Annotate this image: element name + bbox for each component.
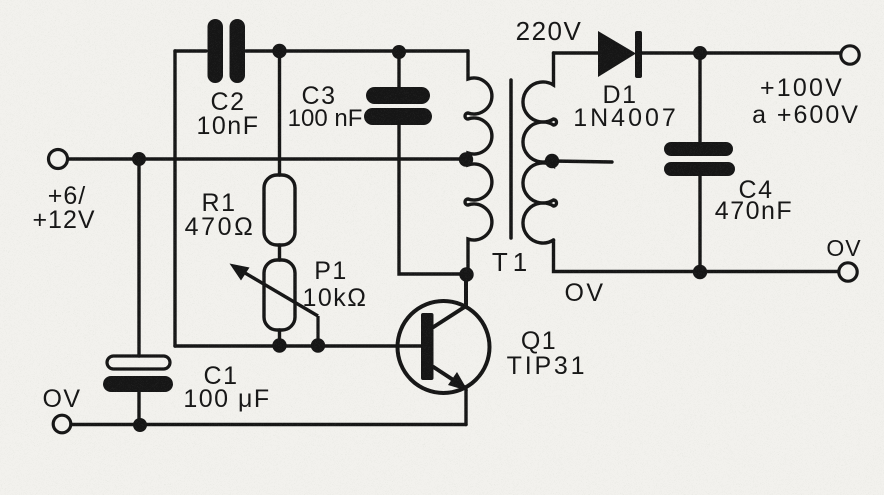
wire base rail xyxy=(175,344,421,347)
label C3 xyxy=(288,82,363,132)
node top wire / R1 xyxy=(272,44,286,58)
node primary center tap xyxy=(459,152,473,166)
transformer T1 secondary winding xyxy=(523,53,557,243)
node top wire / C3 xyxy=(392,45,406,59)
node P1 wiper xyxy=(311,338,325,352)
node diode cathode / C4 xyxy=(693,46,707,60)
label +100V a +600V xyxy=(752,74,860,129)
label C2 xyxy=(197,88,260,140)
node bottom rail / C1 xyxy=(133,418,147,432)
terminal +6/+12V xyxy=(49,150,68,169)
wire R1 top lead xyxy=(278,51,281,175)
label Q1 xyxy=(507,327,588,380)
transformer T1 core xyxy=(509,80,513,238)
wire secondary tap stub xyxy=(552,161,612,162)
capacitor C4 xyxy=(664,142,735,176)
wire main +6/12V rail xyxy=(58,157,466,160)
label +6/+12V xyxy=(32,182,95,234)
wire collector xyxy=(434,274,467,327)
wire emitter xyxy=(434,367,465,387)
transformer T1 primary winding xyxy=(465,51,492,275)
label R1 xyxy=(185,189,256,241)
node secondary center tap xyxy=(545,154,559,168)
node primary bottom / collector xyxy=(459,267,473,281)
capacitor C2 xyxy=(208,19,246,83)
wire feedback vertical xyxy=(173,51,176,346)
capacitor C1 xyxy=(103,356,173,392)
wire secondary bottom rail xyxy=(554,240,849,272)
label D1 xyxy=(573,81,679,132)
resistor R1 xyxy=(264,175,295,245)
node main rail / C1 xyxy=(132,152,146,166)
capacitor C3 xyxy=(364,87,432,125)
diode D1 xyxy=(598,31,642,78)
wire diode rail xyxy=(554,51,600,54)
wire top rail xyxy=(175,49,206,52)
wire P1 bottom lead xyxy=(278,330,281,346)
wire C1 leads xyxy=(137,159,140,356)
node C4 bottom xyxy=(693,265,707,279)
label P1 xyxy=(303,257,368,312)
terminal 0V left xyxy=(53,415,71,433)
wire C4 leads xyxy=(698,53,701,142)
node P1 bottom xyxy=(272,338,286,352)
potentiometer P1 xyxy=(230,260,319,346)
wire C3 branch xyxy=(397,52,400,87)
wire R1-P1 link xyxy=(278,245,281,260)
transistor Q1 xyxy=(398,301,490,393)
wire bottom rail xyxy=(62,423,466,426)
label C4 xyxy=(715,176,793,225)
terminal 0V right xyxy=(839,263,857,281)
terminal +100V output xyxy=(841,46,859,64)
label C1 xyxy=(183,362,270,413)
